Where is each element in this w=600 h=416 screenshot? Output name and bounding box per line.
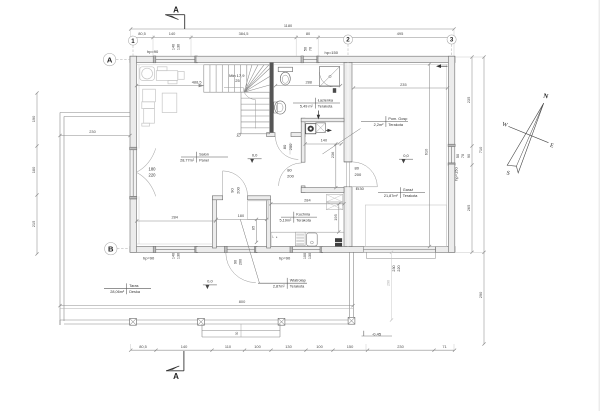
balcony door leaf swings	[137, 148, 156, 172]
svg-text:495: 495	[397, 31, 404, 36]
svg-text:488,5: 488,5	[192, 79, 202, 84]
svg-text:80: 80	[355, 165, 360, 170]
garage entry arrow	[438, 65, 448, 67]
svg-text:236: 236	[330, 152, 335, 159]
room label Wiatrolap	[258, 282, 307, 284]
svg-text:230: 230	[392, 265, 396, 271]
utility south wall	[301, 188, 344, 193]
svg-text:Terakota: Terakota	[318, 104, 333, 108]
dining chair	[157, 67, 167, 71]
svg-text:110: 110	[225, 344, 232, 349]
svg-text:90: 90	[233, 260, 237, 264]
svg-text:0,0: 0,0	[403, 153, 409, 158]
balcony door jamb bottom	[130, 196, 137, 199]
svg-text:hp=90: hp=90	[147, 49, 159, 54]
svg-text:235: 235	[466, 97, 471, 104]
svg-text:Deska: Deska	[129, 290, 141, 294]
svg-text:140: 140	[169, 31, 176, 36]
terrace post 3	[278, 318, 285, 325]
stairs lower flight treads	[241, 92, 270, 134]
wall garage separation lower	[344, 187, 352, 247]
dim 180 vestibule	[216, 218, 266, 220]
terrace post 2	[198, 318, 205, 325]
svg-text:195: 195	[333, 214, 338, 221]
svg-text:0,0: 0,0	[207, 279, 213, 284]
svg-text:800: 800	[239, 299, 246, 304]
svg-text:A: A	[107, 55, 113, 64]
stairs upper flight treads	[204, 65, 247, 92]
svg-text:80,5: 80,5	[139, 344, 147, 349]
entrance door D1 (90/200)	[226, 247, 256, 253]
radiator mark bathroom	[333, 88, 336, 93]
svg-text:220: 220	[397, 265, 401, 271]
svg-text:Wiatrołap: Wiatrołap	[290, 279, 306, 283]
utility/kitchen wall corner piece	[301, 186, 305, 193]
stove burners	[335, 238, 342, 242]
sofa side table	[142, 123, 150, 126]
bottom extension mark	[365, 344, 367, 350]
terrace paving line	[60, 308, 353, 310]
svg-text:5,49 m²: 5,49 m²	[300, 104, 314, 108]
vestibule north wall right piece	[248, 196, 271, 200]
salon finish line left	[138, 65, 140, 149]
svg-text:50: 50	[304, 47, 308, 51]
window W5 jamb top	[448, 144, 455, 146]
svg-text:100: 100	[254, 344, 261, 349]
svg-text:Terakota: Terakota	[403, 194, 418, 198]
window W3 jamb right	[195, 246, 198, 252]
shower tray	[320, 67, 340, 87]
wall top (right segment)	[318, 56, 455, 62]
balcony door jamb top	[130, 147, 137, 150]
svg-text:Terakota: Terakota	[296, 219, 311, 223]
svg-text:384,5: 384,5	[239, 31, 249, 36]
window W1 top jamb right	[195, 56, 198, 63]
svg-text:190: 190	[31, 115, 36, 122]
wiatrolap leader	[240, 219, 259, 283]
room label Kuchnia	[281, 216, 317, 218]
garage fire door swing	[352, 162, 377, 187]
window W4 jamb left	[290, 246, 293, 252]
svg-text:130: 130	[177, 44, 181, 50]
wall top (middle segment)	[196, 56, 302, 62]
svg-text:-0,45: -0,45	[372, 331, 382, 336]
svg-text:Salon: Salon	[199, 152, 209, 156]
window W4 bottom kitchen (100/130)	[291, 247, 321, 253]
garage inner finish lines	[353, 63, 448, 65]
svg-text:200: 200	[236, 186, 241, 193]
svg-text:220: 220	[149, 173, 157, 178]
dim 236 utility vertical	[335, 144, 337, 188]
svg-text:710: 710	[478, 146, 483, 153]
room label Pom Gosp	[361, 120, 408, 122]
svg-text:A: A	[173, 372, 179, 381]
dim 288 bathroom	[276, 85, 341, 87]
svg-text:Terakota: Terakota	[388, 123, 403, 127]
svg-text:140: 140	[172, 253, 176, 259]
terrace right edge	[349, 252, 351, 324]
utility west wall stub	[301, 118, 305, 162]
window W1 top jamb left	[153, 56, 156, 63]
vestibule wardrobe	[248, 201, 269, 220]
vestibule east wall	[267, 200, 271, 248]
svg-text:230: 230	[397, 344, 404, 349]
svg-text:265: 265	[466, 205, 471, 212]
terrace top edge	[60, 112, 130, 114]
svg-text:L: L	[272, 235, 274, 239]
svg-text:21,87m²: 21,87m²	[384, 194, 399, 198]
svg-text:290: 290	[478, 291, 483, 298]
sofa seat 1	[143, 89, 156, 102]
stairs winder treads	[244, 65, 252, 92]
svg-text:140: 140	[321, 138, 328, 143]
vestibule-salon door swing	[223, 171, 248, 196]
arrow to garage wall	[326, 129, 330, 131]
terrace post 1	[130, 318, 137, 325]
svg-text:90: 90	[230, 188, 235, 193]
svg-text:28,77m²: 28,77m²	[180, 158, 195, 162]
window W3 jamb left	[153, 246, 156, 252]
svg-text:130: 130	[285, 344, 292, 349]
washbasin	[274, 102, 277, 113]
window W4 jamb right	[320, 246, 323, 252]
wall bottom seg2	[196, 247, 226, 253]
dim 284 kitchen	[271, 203, 344, 205]
kitchen sink	[307, 233, 318, 246]
room label Salon	[181, 156, 228, 158]
grid bubble 3	[447, 35, 456, 44]
svg-text:30: 30	[235, 332, 239, 336]
svg-text:610: 610	[424, 148, 429, 155]
window W3 bottom (140/130)	[155, 247, 197, 253]
svg-text:B: B	[108, 244, 114, 253]
bathroom south wall left piece	[267, 133, 275, 137]
svg-text:EI30: EI30	[356, 186, 365, 191]
bathroom door swing	[276, 137, 299, 160]
svg-text:284: 284	[171, 215, 178, 220]
svg-text:130: 130	[177, 253, 181, 259]
svg-text:25: 25	[235, 78, 240, 83]
svg-text:200: 200	[355, 172, 362, 177]
window W5 garage right (50/70)	[448, 145, 454, 164]
svg-text:50: 50	[456, 154, 460, 158]
entrance door swing onto terrace	[226, 253, 256, 283]
coffee table	[162, 93, 177, 112]
dim chain top	[131, 37, 452, 39]
dim 85 vestibule vertical	[256, 219, 258, 242]
wall right lower	[448, 164, 454, 252]
svg-text:290: 290	[387, 280, 391, 286]
svg-text:100: 100	[303, 253, 307, 259]
window W1 top (140/130) glazing	[155, 56, 197, 62]
svg-text:100: 100	[316, 344, 323, 349]
dim 610 garage vertical	[429, 64, 431, 247]
svg-text:Taras: Taras	[129, 284, 138, 288]
svg-text:hp=150: hp=150	[325, 50, 339, 55]
sofa seat 2	[142, 102, 155, 109]
utility north wall	[301, 118, 344, 122]
wall left lower	[130, 199, 137, 252]
svg-text:284: 284	[304, 198, 311, 203]
dim 235 garage	[354, 87, 448, 89]
room label Lazienka	[293, 102, 340, 104]
garage door extent bracket	[365, 252, 367, 258]
entrance door jamb left	[225, 246, 228, 252]
grid bubble B	[105, 243, 117, 255]
svg-text:200: 200	[287, 173, 294, 178]
top extension lines	[130, 29, 132, 45]
svg-text:71: 71	[442, 344, 446, 349]
terrace post 4	[348, 317, 355, 324]
kitchen counter	[271, 232, 344, 246]
dishwasher	[295, 232, 305, 246]
svg-text:Łazienka: Łazienka	[318, 98, 334, 102]
svg-text:hp=90: hp=90	[279, 255, 291, 260]
kitchen-utility door swing	[279, 163, 302, 186]
svg-text:2,2m²: 2,2m²	[374, 123, 384, 127]
svg-text:2,87m²: 2,87m²	[273, 285, 286, 289]
svg-text:70: 70	[461, 154, 465, 158]
svg-text:1: 1	[131, 38, 135, 45]
svg-text:180: 180	[31, 166, 36, 173]
svg-text:5,19m²: 5,19m²	[279, 219, 292, 223]
svg-text:140: 140	[172, 44, 176, 50]
scan edge line right	[598, 0, 600, 411]
wall left upper	[130, 56, 137, 148]
svg-text:hp=150: hp=150	[454, 167, 459, 181]
dim 488.5 salon	[137, 85, 205, 87]
dim line right outer	[483, 57, 485, 344]
wall bottom seg1	[130, 247, 155, 253]
car outline	[365, 205, 446, 246]
compass rose	[508, 126, 548, 142]
svg-text:150: 150	[347, 344, 354, 349]
stairs entry marker	[237, 133, 240, 136]
svg-text:230: 230	[89, 129, 96, 134]
dim 290 right of terrace	[391, 252, 393, 320]
wall bottom seg4	[321, 247, 363, 253]
bathroom finish line top	[274, 64, 344, 66]
dim 230 terrace	[60, 135, 130, 137]
vestibule west wall	[212, 196, 216, 248]
window W2 jamb right	[317, 56, 319, 63]
garage door opening (230/220)	[363, 247, 435, 253]
svg-text:140: 140	[181, 344, 188, 349]
dim chain bottom	[131, 349, 454, 351]
svg-text:80,5: 80,5	[138, 31, 146, 36]
dim 140 utility	[305, 143, 341, 145]
dim 195 kitchen vertical	[338, 204, 340, 232]
svg-text:Garaż: Garaż	[403, 188, 413, 192]
svg-text:A: A	[173, 6, 179, 15]
grid bubble 1	[128, 36, 137, 45]
wall right upper	[448, 56, 454, 145]
svg-text:Terakota: Terakota	[290, 285, 305, 289]
svg-text:Kuchnia: Kuchnia	[296, 213, 311, 217]
dim 800 terrace	[60, 305, 353, 307]
right extension lines	[455, 56, 484, 58]
garage fire door opening	[344, 161, 352, 163]
wall top (left segment)	[130, 56, 155, 62]
svg-text:Pom. Gosp: Pom. Gosp	[388, 117, 407, 121]
washing machine	[306, 124, 316, 134]
salon finish line bottom	[137, 243, 213, 245]
svg-text:80: 80	[287, 167, 292, 172]
balcony door DB (180/220) opening	[130, 149, 137, 197]
svg-text:180: 180	[238, 213, 245, 218]
dining table	[156, 71, 177, 81]
svg-text:1180: 1180	[284, 23, 293, 28]
toilet	[278, 67, 292, 72]
terrace steps	[201, 324, 203, 337]
svg-text:3: 3	[450, 37, 454, 44]
room label Taras	[104, 288, 151, 290]
svg-text:215: 215	[31, 221, 36, 228]
vestibule north wall left piece	[212, 196, 222, 200]
room label Garaz	[378, 192, 425, 194]
svg-text:2: 2	[346, 37, 350, 44]
armchair round	[140, 67, 155, 81]
dim line right inner	[471, 57, 473, 252]
arrow into utility	[317, 111, 319, 118]
stairwell wall (dark)	[270, 63, 274, 135]
svg-text:235: 235	[400, 82, 407, 87]
svg-text:85: 85	[251, 226, 256, 230]
wall bottom seg3	[256, 247, 291, 253]
entrance door jamb right	[255, 246, 258, 252]
stairs walk line	[254, 100, 256, 129]
fridge boxes	[326, 195, 343, 203]
svg-text:0,0: 0,0	[252, 153, 258, 158]
section marker A top	[165, 14, 184, 16]
window W5 jamb bottom	[448, 163, 455, 165]
terrace bottom edge	[60, 319, 354, 321]
salon finish line top	[137, 64, 204, 66]
svg-text:80: 80	[282, 144, 287, 149]
svg-text:Panel: Panel	[199, 158, 209, 162]
dim 284 salon	[137, 220, 216, 222]
wall bottom seg5	[436, 247, 455, 253]
dim total 1180	[131, 28, 454, 30]
sofa seat 3	[144, 109, 155, 124]
svg-text:200: 200	[288, 143, 293, 150]
bathroom south wall right piece	[291, 133, 305, 137]
pom gosp leader	[323, 129, 361, 155]
grid bubble A	[103, 53, 115, 65]
utility sink	[316, 123, 326, 133]
dim chain left	[36, 93, 38, 254]
svg-text:28,06m²: 28,06m²	[110, 290, 125, 294]
svg-text:288: 288	[305, 79, 312, 84]
terrace left edge	[59, 113, 61, 326]
svg-text:180: 180	[149, 167, 157, 172]
window W2 top bathroom (50/70) glazing	[302, 56, 318, 62]
grid bubble 2	[343, 35, 352, 44]
svg-text:hp=90: hp=90	[143, 255, 155, 260]
svg-text:130: 130	[308, 253, 312, 259]
section marker A bottom	[166, 370, 184, 372]
window W2 jamb left	[301, 56, 303, 63]
svg-text:70: 70	[309, 47, 313, 51]
wall garage separation upper	[344, 63, 352, 162]
svg-text:200: 200	[238, 259, 242, 265]
